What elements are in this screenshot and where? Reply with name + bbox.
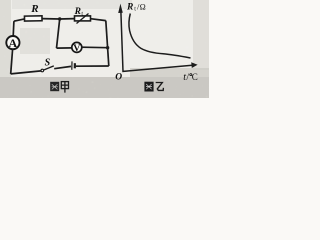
wire bottom-left (corner to switch) xyxy=(11,71,41,74)
caption 图甲 xyxy=(50,82,68,93)
svg-text:R: R xyxy=(74,7,81,17)
battery BT1 long plate xyxy=(71,61,73,69)
wire (battery to bottom-right corner) xyxy=(76,65,109,67)
wire (junction A to thermistor Rt) xyxy=(60,18,75,20)
battery BT1 short plate xyxy=(74,63,76,68)
resistor R xyxy=(24,16,42,21)
ammeter A xyxy=(6,36,19,50)
svg-text:R: R xyxy=(30,3,38,15)
wire (R to junction A) xyxy=(42,18,60,20)
svg-text:A: A xyxy=(9,36,18,50)
x-axis arrowhead xyxy=(191,62,197,68)
svg-text:/: / xyxy=(186,73,189,83)
switch S blade xyxy=(43,66,53,70)
svg-text:Ω: Ω xyxy=(140,2,146,11)
voltmeter V xyxy=(72,42,82,54)
wire left side (top-left corner down to ammeter) xyxy=(12,21,15,36)
wire (switch to battery) xyxy=(54,66,71,68)
thermistor Rt xyxy=(75,14,91,24)
label t/degC on x-axis xyxy=(183,72,198,83)
svg-text:V: V xyxy=(73,43,80,54)
junction B (voltmeter tap on right wire) xyxy=(106,46,109,49)
svg-text:S: S xyxy=(45,57,51,68)
wire top segment (top-left corner to resistor R) xyxy=(14,19,25,21)
svg-text:C: C xyxy=(192,72,198,82)
label Rt/ohm on y-axis xyxy=(126,1,146,12)
y-axis arrowhead xyxy=(118,4,123,13)
y-axis of graph (Rt axis) xyxy=(121,9,192,71)
wire (Rt to top-right corner) xyxy=(91,19,106,21)
wire (ammeter to bottom-left corner) xyxy=(11,49,13,74)
wire (drop corner to voltmeter) xyxy=(57,47,73,49)
wire (voltmeter to junction B) xyxy=(82,46,108,49)
curve Rt vs t xyxy=(129,14,191,59)
svg-text:R: R xyxy=(126,2,133,12)
switch S pivot xyxy=(41,69,44,72)
wire drop (junction A down to voltmeter row) xyxy=(57,19,60,48)
caption 图乙 xyxy=(144,82,163,92)
svg-text:O: O xyxy=(115,72,122,82)
wire right side (top-right corner down to junction B) xyxy=(106,21,108,48)
svg-text:t: t xyxy=(81,10,83,17)
junction A (node between R and Rt) xyxy=(58,17,61,20)
wire right side lower (junction B down to bottom-right corner) xyxy=(108,48,109,66)
